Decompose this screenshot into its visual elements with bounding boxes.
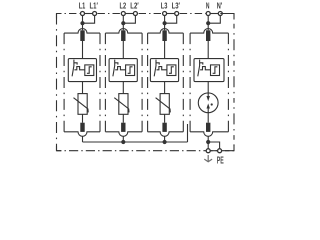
triggered spark gap unit L1 (box) bbox=[68, 59, 96, 82]
module box N: top edge with entry bump bbox=[190, 29, 228, 34]
module box L1: right side (dash-dot) bbox=[99, 33, 101, 132]
N-PE gap bottom electrode arrow bbox=[207, 108, 209, 112]
varistor L3 (rect) bbox=[160, 94, 169, 115]
trigger electronics box L3 bbox=[167, 65, 176, 76]
step symbol inside trigger box L2 bbox=[128, 67, 133, 74]
trigger pulse line L3 bbox=[157, 67, 167, 70]
terminal circle L1&#180; bbox=[93, 12, 97, 16]
wire: N&#180; terminal to enclosure corner bbox=[220, 14, 234, 20]
thermal disconnector (top) F-L2 bbox=[121, 30, 125, 41]
enclosure border top segment 1 (dash-dot) bbox=[57, 13, 81, 15]
module box L1: left side (dash-dot) bbox=[63, 33, 65, 132]
thermal disconnector (top) F-N bbox=[206, 30, 210, 41]
module box L2: left side (dash-dot) bbox=[104, 33, 106, 132]
enclosure border right (dash-dot) bbox=[233, 24, 235, 151]
spark gap electrode symbol L1 bbox=[72, 60, 74, 77]
terminal circle L3 bbox=[163, 12, 167, 16]
wire: spark-gap box to lower element L1 bbox=[82, 82, 84, 94]
spark gap electrode symbol L3 bbox=[154, 60, 156, 77]
triggered spark gap unit N (box) bbox=[194, 59, 224, 82]
wire: lower element to bottom disconnector L1 bbox=[82, 114, 84, 122]
junction dot node N bbox=[206, 21, 210, 25]
trigger dot inside N-PE gap bbox=[211, 103, 213, 105]
thermal disconnector (top) F-L3 bbox=[162, 30, 166, 41]
junction dot node L2 bbox=[121, 21, 125, 25]
svg-text:L3′: L3′ bbox=[172, 1, 180, 11]
module box L3: right side (dash-dot) bbox=[182, 33, 184, 132]
spark gap electrode symbol N bbox=[198, 60, 200, 77]
bus junction dot L2 bbox=[121, 140, 125, 144]
varistor L1 (rect) bbox=[78, 94, 87, 115]
wire: lower element to bottom disconnector L3 bbox=[164, 114, 166, 122]
varistor diagonal stroke L1 bbox=[74, 98, 89, 113]
varistor diagonal stroke L2 bbox=[114, 98, 129, 113]
wire: spark-gap box to lower element L3 bbox=[164, 82, 166, 94]
wire: terminal L1 down to junction bbox=[82, 14, 84, 31]
svg-text:L3: L3 bbox=[161, 1, 168, 11]
border corner reinforcement top-left bbox=[57, 14, 62, 19]
wire: lower element to bottom disconnector L2 bbox=[122, 114, 124, 122]
module box L1: top edge with entry bump bbox=[64, 29, 100, 34]
trigger electronics box N bbox=[211, 65, 220, 76]
module box L2: right side (dash-dot) bbox=[141, 33, 143, 132]
wire: box exit to PE bus N bbox=[207, 136, 209, 148]
terminal circle L1 bbox=[81, 12, 85, 16]
junction dot node L3 bbox=[163, 21, 167, 25]
enclosure border top segment 2 (dash-dot) bbox=[97, 13, 122, 15]
wire: link between terminal pair L2 bbox=[123, 13, 135, 15]
module box L2: bottom edge with exit bump bbox=[105, 132, 142, 137]
trigger electronics box L2 bbox=[126, 65, 135, 76]
module box L2: top edge with entry bump bbox=[105, 29, 142, 34]
trigger electronics box L1 bbox=[85, 65, 94, 76]
thermal disconnector (bottom) L2 bbox=[121, 123, 125, 132]
wire: spark-gap box to lower element L2 bbox=[122, 82, 124, 94]
module box N: bottom edge with exit bump bbox=[190, 132, 228, 137]
module box L3: top edge with entry bump bbox=[148, 29, 184, 34]
PE terminal circle 1 bbox=[206, 149, 210, 153]
svg-text:PE: PE bbox=[217, 154, 224, 164]
electrode tick L3 bbox=[156, 63, 159, 65]
terminal circle L2&#180; bbox=[133, 12, 137, 16]
thermal disconnector (bottom) L3 bbox=[162, 123, 166, 132]
trigger pulse line N bbox=[200, 67, 210, 70]
earthing arrow to PE bbox=[204, 155, 212, 162]
terminal circle L2 bbox=[121, 12, 125, 16]
wire: terminal L3 down to junction bbox=[164, 14, 166, 31]
terminal circle L3&#180; bbox=[175, 12, 179, 16]
electrode tick L1 bbox=[74, 63, 77, 65]
wire: disconnector to spark-gap box N bbox=[207, 41, 209, 59]
terminal circle N bbox=[206, 12, 210, 16]
triggered spark gap unit L2 (box) bbox=[109, 59, 137, 82]
spark gap electrode symbol L2 bbox=[113, 60, 115, 77]
wire: disconnector to spark-gap box L1 bbox=[82, 41, 84, 59]
enclosure border left (dash-dot) bbox=[56, 14, 58, 151]
module box L3: bottom edge with exit bump bbox=[148, 132, 184, 137]
varistor diagonal stroke L3 bbox=[156, 98, 171, 113]
PE terminal circle 2 bbox=[218, 149, 222, 153]
svg-text:L1: L1 bbox=[79, 1, 86, 11]
step symbol inside trigger box L3 bbox=[169, 67, 174, 74]
svg-text:N: N bbox=[206, 1, 210, 11]
bus junction dot L3 bbox=[163, 140, 167, 144]
PE bus wire (L1-L3 collector) bbox=[83, 141, 188, 143]
thermal disconnector (bottom) L1 bbox=[80, 123, 84, 132]
N-PE gap top electrode arrow bbox=[207, 93, 209, 97]
module box L3: left side (dash-dot) bbox=[147, 33, 149, 132]
module box N: left side (dash-dot) bbox=[189, 33, 191, 132]
module box L1: bottom edge with exit bump bbox=[64, 132, 100, 137]
thermal disconnector (bottom) N bbox=[206, 123, 210, 132]
module box N: right side (dash-dot) bbox=[227, 33, 229, 132]
svg-text:N′: N′ bbox=[217, 1, 222, 11]
border corner reinforcement bottom-right bbox=[225, 145, 234, 151]
border corner reinforcement bottom-left bbox=[57, 146, 62, 151]
thermal disconnector (top) F-L1 bbox=[80, 30, 84, 41]
svg-text:L2′: L2′ bbox=[130, 1, 138, 11]
enclosure border bottom (dash-dot) bbox=[57, 150, 235, 152]
step symbol inside trigger box L1 bbox=[87, 67, 92, 74]
wire: box exit to PE bus L3 bbox=[164, 136, 166, 142]
wire: N junction to PE2 terminal bbox=[208, 142, 219, 149]
step symbol inside trigger box N bbox=[213, 67, 218, 74]
trigger pulse line L1 bbox=[74, 67, 84, 70]
wire: link between terminal pair N bbox=[208, 13, 220, 15]
wire: link between PE terminal pair bbox=[208, 150, 219, 152]
wire: terminal L2 down to junction bbox=[122, 14, 124, 31]
bus riser joining N module box bottom bbox=[187, 124, 189, 142]
wire: terminal N&#180; down and left to junction bbox=[208, 14, 220, 24]
wire: terminal L2&#180; down and left to junction bbox=[123, 14, 135, 24]
wire: box exit to PE bus L2 bbox=[122, 136, 124, 142]
svg-text:L1′: L1′ bbox=[90, 1, 98, 11]
wire: disconnector to spark-gap box L2 bbox=[122, 41, 124, 59]
junction dot node L1 bbox=[80, 21, 84, 25]
enclosure border top segment 3 (dash-dot) bbox=[138, 13, 163, 15]
triggered spark gap unit L3 (box) bbox=[150, 59, 178, 82]
enclosure border top segment 4 (dash-dot) bbox=[179, 13, 206, 15]
svg-text:L2: L2 bbox=[120, 1, 127, 11]
wire: terminal L1&#180; down and left to junction bbox=[83, 14, 95, 24]
wire: terminal L3&#180; down and left to junction bbox=[165, 14, 177, 24]
N-PE spark gap (circle) bbox=[198, 93, 218, 113]
electrode tick N bbox=[200, 63, 203, 65]
wire: link between terminal pair L1 bbox=[83, 13, 95, 15]
wire: terminal N down to junction bbox=[207, 14, 209, 31]
wire: spark-gap box to lower element N bbox=[207, 82, 209, 94]
wire: disconnector to spark-gap box L3 bbox=[164, 41, 166, 59]
wire: box exit to PE bus L1 bbox=[82, 136, 84, 142]
bus junction dot N bbox=[206, 140, 210, 144]
wire: lower element to bottom disconnector N bbox=[207, 113, 209, 123]
varistor L2 (rect) bbox=[119, 94, 128, 115]
terminal circle N&#180; bbox=[218, 12, 222, 16]
electrode tick L2 bbox=[115, 63, 118, 65]
trigger pulse line L2 bbox=[115, 67, 125, 70]
wire: link between terminal pair L3 bbox=[165, 13, 177, 15]
